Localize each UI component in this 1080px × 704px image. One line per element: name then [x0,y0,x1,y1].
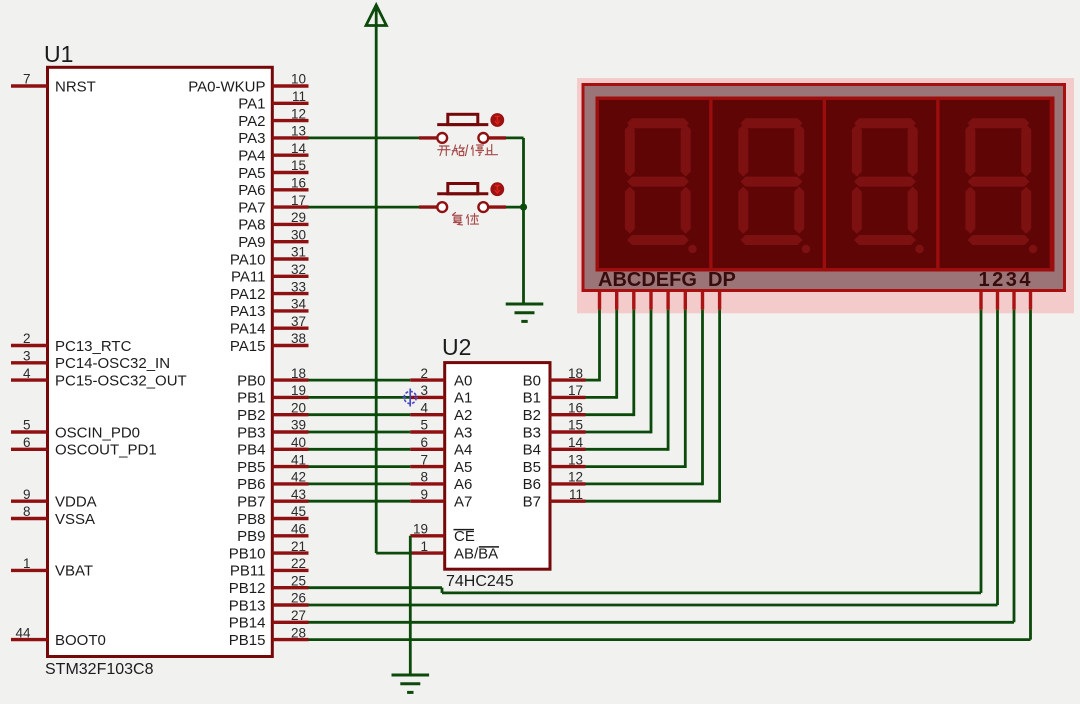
buffer U2 body [445,363,550,570]
svg-text:3: 3 [23,349,31,364]
push button reset [437,184,488,213]
svg-text:43: 43 [291,487,306,502]
ground symbol below U2 [392,675,430,692]
wire B0 to display segment A [586,310,600,382]
svg-text:AB/BA: AB/BA [454,545,498,562]
svg-text:40: 40 [291,435,306,450]
svg-text:18: 18 [568,366,583,381]
svg-text:PB14: PB14 [229,615,266,632]
U1 pin 11 (PA1) [238,89,308,113]
svg-text:2: 2 [23,331,31,346]
svg-text:A4: A4 [454,442,472,459]
svg-text:PB11: PB11 [230,563,266,580]
svg-text:14: 14 [291,141,307,156]
display pin B stub [615,292,618,310]
wire PB15 to display pin 4 [309,310,1031,640]
svg-text:BOOT0: BOOT0 [55,632,106,649]
U1 pin 5 (OSCIN_PD0) [11,418,140,442]
display pin C stub [632,292,635,310]
U1 pin 30 (PA9) [238,227,308,251]
svg-text:PC13_RTC: PC13_RTC [55,338,132,355]
svg-text:PB9: PB9 [237,528,265,545]
svg-text:ABCDEFG DP: ABCDEFG DP [598,269,736,291]
wire PB5 to A5 [309,465,411,468]
wire B2 to display segment C [586,310,634,417]
U1 pin 29 (PA8) [238,210,308,234]
svg-text:1: 1 [23,556,31,571]
svg-text:PB0: PB0 [237,372,265,389]
svg-text:41: 41 [291,452,306,467]
U1 pin 33 (PA12) [230,279,309,303]
mcu U1 body [48,67,273,656]
svg-text:16: 16 [568,400,583,415]
U1 pin 25 (PB12) [229,573,309,597]
svg-text:31: 31 [291,245,306,260]
U1 pin 46 (PB9) [237,522,308,546]
svg-text:PB12: PB12 [229,580,266,597]
svg-text:PA12: PA12 [230,286,266,303]
U2 pin 5 (A3) [410,418,472,442]
svg-text:OSCIN_PD0: OSCIN_PD0 [55,424,140,441]
display digit 1 (segments a-g, dp) [599,100,709,268]
wire PB6 to A6 [309,482,411,485]
button reset left pin stub [419,205,437,208]
svg-text:25: 25 [291,573,306,588]
button label reset (Chinese) [453,213,479,225]
U2 pin 3 (A1) [410,383,472,407]
U1 pin 42 (PB6) [237,470,308,494]
svg-text:1234: 1234 [979,269,1034,291]
U2 pin 7 (A5) [410,452,472,476]
wire B1 to display segment B [586,310,617,399]
svg-text:19: 19 [291,383,306,398]
svg-text:PA14: PA14 [230,321,266,338]
U1 pin 40 (PB4) [237,435,308,459]
U1 pin 6 (OSCOUT_PD1) [11,435,157,459]
U2 pin 8 (A6) [410,470,472,494]
U1 pin 10 (PA0-WKUP) [188,72,308,96]
wire PB4 to A4 [309,448,411,451]
svg-text:B3: B3 [523,424,541,441]
display digit 4 (segments a-g, dp) [940,100,1050,268]
U1 pin 20 (PB2) [237,400,308,424]
button reset toggle icon [490,182,504,196]
svg-text:A3: A3 [454,424,472,441]
svg-text:B1: B1 [523,390,541,407]
U1 pin 2 (PC13_RTC) [11,331,132,355]
U1 pin 7 (NRST) [11,72,96,96]
wire PA7 to button [309,206,420,209]
svg-text:5: 5 [23,418,31,433]
display pin 4 stub [1029,292,1032,310]
U2 pin 19 (CE, active low) [410,522,475,546]
svg-text:PA7: PA7 [238,199,265,216]
svg-text:45: 45 [291,504,306,519]
svg-text:U1: U1 [44,41,73,67]
wire PB0 to A0 [309,379,411,382]
svg-text:PA1: PA1 [238,96,265,113]
svg-text:B2: B2 [523,407,541,424]
U1 pin 13 (PA3) [238,124,308,148]
U2 pin 18 (B0) [523,366,586,390]
U1 pin 19 (PB1) [237,383,308,407]
svg-text:PB3: PB3 [237,424,265,441]
svg-text:38: 38 [291,331,306,346]
svg-text:VBAT: VBAT [55,563,93,580]
wire B7 to display segment DP [586,310,720,503]
U1 pin 21 (PB10) [229,539,309,563]
push button start/stop [437,114,488,143]
wire B5 to display segment F [586,310,686,468]
wire B4 to display segment E [586,310,669,451]
display pin DP stub [718,292,721,310]
svg-text:PB5: PB5 [237,459,265,476]
svg-text:PA11: PA11 [231,269,265,286]
display pin G stub [701,292,704,310]
U1 pin 43 (PB7) [237,487,308,511]
svg-text:17: 17 [568,383,583,398]
svg-text:PA9: PA9 [238,234,265,251]
svg-text:PB7: PB7 [237,494,265,511]
svg-text:VDDA: VDDA [55,494,97,511]
svg-text:A6: A6 [454,476,472,493]
U1 pin 45 (PB8) [237,504,308,528]
wire CE to ground [409,536,412,675]
ground symbol near buttons [506,304,544,321]
svg-text:15: 15 [291,158,306,173]
U1 pin 1 (VBAT) [11,556,93,580]
svg-text:PC15-OSC32_OUT: PC15-OSC32_OUT [55,372,187,389]
svg-text:44: 44 [15,625,31,640]
wire VCC vertical to AB/BA [376,26,410,554]
svg-text:19: 19 [413,522,428,537]
svg-text:A5: A5 [454,459,472,476]
svg-text:18: 18 [291,366,306,381]
U2 pin 13 (B5) [523,452,586,476]
svg-text:15: 15 [568,418,583,433]
svg-text:12: 12 [568,470,583,485]
svg-text:PB6: PB6 [237,476,265,493]
svg-text:PB13: PB13 [229,597,266,614]
svg-text:5: 5 [420,418,428,433]
U1 pin 15 (PA5) [238,158,308,182]
svg-text:14: 14 [568,435,584,450]
display pin 3 stub [1012,292,1015,310]
svg-text:17: 17 [291,193,306,208]
svg-text:9: 9 [23,487,31,502]
svg-text:30: 30 [291,227,306,242]
display pin F stub [684,292,687,310]
U1 pin 28 (PB15) [229,625,309,649]
svg-text:13: 13 [568,452,583,467]
svg-text:B6: B6 [523,476,541,493]
wire button reset to junction [506,206,524,209]
svg-text:7: 7 [23,72,31,87]
wire PB12 to display pin 1 [309,310,982,593]
U2 pin 11 (B7) [523,487,586,511]
svg-text:PA5: PA5 [238,165,265,182]
svg-text:28: 28 [291,625,306,640]
svg-text:21: 21 [291,539,306,554]
svg-text:13: 13 [291,124,306,139]
svg-text:1: 1 [420,539,428,554]
svg-text:PB10: PB10 [229,545,266,562]
svg-text:9: 9 [420,487,428,502]
svg-text:37: 37 [291,314,306,329]
U1 pin 18 (PB0) [237,366,308,390]
U2 pin 2 (A0) [410,366,472,390]
U1 pin 32 (PA11) [231,262,308,286]
svg-text:A0: A0 [454,372,472,389]
svg-text:4: 4 [420,400,428,415]
svg-text:NRST: NRST [55,78,96,95]
U1 pin 34 (PA13) [230,297,309,321]
wire button start/stop to junction [506,138,524,207]
svg-text:2: 2 [420,366,428,381]
svg-text:PA6: PA6 [238,182,265,199]
svg-text:PB4: PB4 [237,442,265,459]
svg-text:20: 20 [291,400,306,415]
wire PB7 to A7 [309,500,411,503]
svg-text:B5: B5 [523,459,541,476]
U1 pin 12 (PA2) [238,106,308,130]
svg-text:PA8: PA8 [238,217,265,234]
svg-text:U2: U2 [442,334,471,360]
wire PB13 to display pin 2 [309,310,998,605]
svg-text:PA15: PA15 [230,338,266,355]
display pin 2 stub [996,292,999,310]
svg-text:3: 3 [420,383,428,398]
wire PA3 to button [309,136,420,139]
svg-text:PB15: PB15 [229,632,266,649]
U2 pin 17 (B1) [523,383,586,407]
svg-text:PA10: PA10 [230,251,266,268]
U1 pin 17 (PA7) [238,193,308,217]
wire B6 to display segment G [586,310,703,486]
svg-text:VSSA: VSSA [55,511,95,528]
svg-text:10: 10 [291,72,306,87]
svg-text:74HC245: 74HC245 [446,573,514,590]
U1 pin 37 (PA14) [230,314,309,338]
U1 pin 4 (PC15-OSC32_OUT) [11,366,187,390]
svg-text:CE: CE [454,528,475,545]
svg-text:7: 7 [420,452,428,467]
U2 pin 6 (A4) [410,435,472,459]
svg-text:34: 34 [291,297,307,312]
junction dot [520,204,527,211]
display DS1 digit panel [596,97,1055,272]
svg-text:8: 8 [23,504,31,519]
svg-text:OSCOUT_PD1: OSCOUT_PD1 [55,442,157,459]
display pin A stub [598,292,601,310]
svg-text:11: 11 [292,89,306,104]
U1 pin 27 (PB14) [229,608,309,632]
svg-text:11: 11 [569,487,583,502]
U2 pin 12 (B6) [523,470,586,494]
svg-text:PA2: PA2 [238,113,265,130]
button start/stop toggle icon [490,113,504,127]
wire PB14 to display pin 3 [309,310,1015,623]
svg-text:B0: B0 [523,372,541,389]
svg-text:6: 6 [420,435,428,450]
svg-text:PB2: PB2 [237,407,265,424]
U1 pin 31 (PA10) [230,245,309,269]
svg-text:PA0-WKUP: PA0-WKUP [188,78,265,95]
button start/stop right pin stub [488,136,506,139]
svg-text:8: 8 [420,470,428,485]
svg-text:A1: A1 [454,390,472,407]
svg-text:PA13: PA13 [230,303,266,320]
svg-text:46: 46 [291,522,306,537]
display DS1 outer frame [583,85,1065,291]
svg-text:PB8: PB8 [237,511,265,528]
svg-text:26: 26 [291,591,306,606]
svg-text:33: 33 [291,279,306,294]
svg-text:42: 42 [291,470,306,485]
svg-text:PC14-OSC32_IN: PC14-OSC32_IN [55,355,170,372]
display pin E stub [666,292,669,310]
svg-text:PA4: PA4 [238,148,265,165]
power symbol VCC arrow [366,5,386,26]
display DS1 highlight background [577,78,1074,313]
svg-text:B4: B4 [523,442,541,459]
U1 pin 14 (PA4) [238,141,308,165]
wire PB3 to A3 [309,431,411,434]
svg-text:B7: B7 [523,494,541,511]
wire B3 to display segment D [586,310,652,434]
svg-text:4: 4 [23,366,31,381]
U1 pin 3 (PC14-OSC32_IN) [11,349,170,373]
svg-text:A7: A7 [454,494,472,511]
svg-text:12: 12 [291,106,306,121]
U2 pin 14 (B4) [523,435,586,459]
U1 pin 44 (BOOT0) [11,625,106,649]
svg-text:PB1: PB1 [237,390,265,407]
display pin 1 stub [979,292,982,310]
display pin D stub [649,292,652,310]
origin marker (blue crosshair) [403,389,418,407]
U2 pin 1 (AB/BA) [410,539,499,563]
display digit 3 (segments a-g, dp) [826,100,936,268]
button reset right pin stub [488,205,506,208]
svg-text:STM32F103C8: STM32F103C8 [45,661,154,678]
svg-text:6: 6 [23,435,31,450]
svg-text:27: 27 [291,608,306,623]
svg-text:16: 16 [291,176,306,191]
U1 pin 8 (VSSA) [11,504,95,528]
U1 pin 22 (PB11) [230,556,309,580]
wire junction to ground [522,207,525,304]
wire PB1 to A1 [309,396,411,399]
U2 pin 4 (A2) [410,400,472,424]
display digit 2 (segments a-g, dp) [713,100,823,268]
U1 pin 16 (PA6) [238,176,308,200]
svg-text:39: 39 [291,418,306,433]
U1 pin 38 (PA15) [230,331,309,355]
U2 pin 16 (B2) [523,400,586,424]
U2 pin 15 (B3) [523,418,586,442]
svg-text:29: 29 [291,210,306,225]
wire PB2 to A2 [309,413,411,416]
button start/stop left pin stub [419,136,437,139]
svg-text:A2: A2 [454,407,472,424]
U1 pin 39 (PB3) [237,418,308,442]
U1 pin 26 (PB13) [229,591,309,615]
button label start/stop (Chinese) [438,145,498,156]
svg-text:PA3: PA3 [238,130,265,147]
U2 pin 9 (A7) [410,487,472,511]
svg-text:22: 22 [291,556,306,571]
svg-text:32: 32 [291,262,306,277]
U1 pin 41 (PB5) [237,452,308,476]
U1 pin 9 (VDDA) [11,487,97,511]
